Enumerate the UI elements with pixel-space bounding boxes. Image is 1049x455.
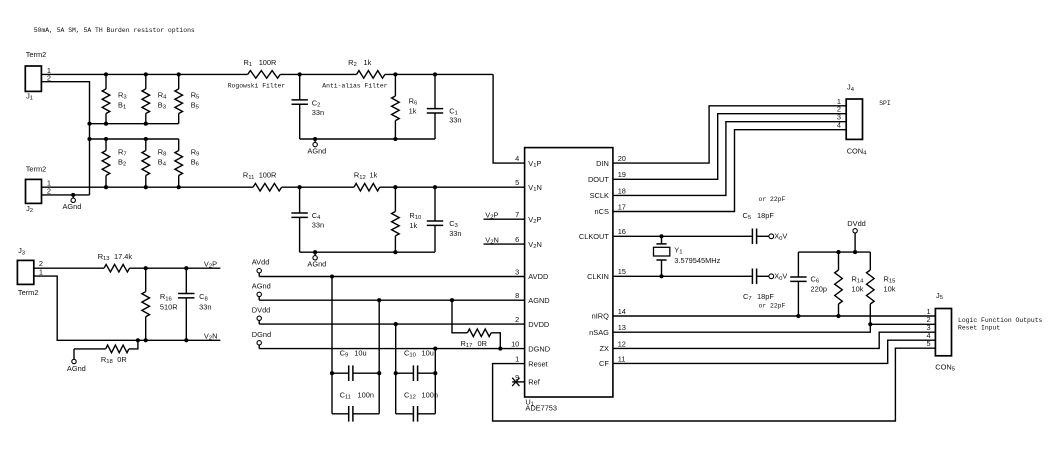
wire R12 to pin 5	[380, 186, 525, 188]
resistor R6	[392, 74, 418, 139]
node R5 top	[177, 72, 181, 76]
resistor R9	[175, 139, 200, 187]
svg-text:1k: 1k	[370, 171, 378, 180]
svg-text:AGnd: AGnd	[67, 364, 86, 373]
svg-text:7: 7	[515, 210, 519, 219]
node R4 top	[144, 72, 148, 76]
terminal X0V top	[765, 232, 788, 242]
svg-text:1k: 1k	[409, 221, 417, 230]
svg-text:AGnd: AGnd	[63, 202, 82, 211]
capacitor C10	[396, 349, 436, 382]
wire C9 right rail	[378, 300, 380, 414]
svg-text:C8​: C8​	[199, 292, 208, 302]
net V2P at pin 7	[484, 210, 525, 220]
resistor R12	[354, 171, 380, 191]
wire J3 pin1 down to V2N row	[34, 276, 221, 340]
svg-text:Anti-alias Filter: Anti-alias Filter	[322, 83, 387, 90]
wire R11 to R12	[282, 186, 354, 188]
wire DVdd rail	[259, 323, 524, 325]
node R15 bottom	[868, 322, 872, 326]
node C3 top	[433, 185, 437, 189]
svg-text:ZX: ZX	[599, 344, 609, 353]
svg-text:4: 4	[837, 121, 841, 130]
svg-text:10k: 10k	[852, 284, 864, 293]
capacitor C8	[178, 268, 211, 340]
node rail C join	[87, 137, 91, 141]
node R14 top	[836, 250, 840, 254]
net label V2P left	[204, 259, 217, 269]
label SPI	[879, 100, 891, 107]
node C6 bottom	[796, 314, 800, 318]
terminal DVdd	[847, 219, 866, 252]
node R8 bottom	[144, 185, 148, 189]
wire J1 pin1 to rail A	[41, 73, 247, 75]
ground AGnd filter2	[307, 252, 326, 268]
node R10 top	[393, 185, 397, 189]
svg-text:nCS: nCS	[595, 207, 609, 216]
svg-text:SPI: SPI	[879, 100, 891, 107]
resistor R4	[142, 74, 167, 123]
pin 12 ZX label	[599, 339, 625, 353]
node C10 left	[394, 371, 398, 375]
resistor R2	[348, 58, 385, 78]
capacitor C3	[427, 187, 462, 252]
pin 11 CF label	[599, 354, 625, 368]
svg-text:33n: 33n	[312, 221, 324, 230]
label or 22pF bottom	[759, 302, 786, 309]
node C9C11 right rail top	[377, 298, 381, 302]
svg-text:Reset: Reset	[528, 359, 547, 368]
node R7 top	[104, 137, 108, 141]
node R17 right bottom	[498, 347, 502, 351]
node R9 bottom	[177, 185, 181, 189]
node R16 bottom	[144, 338, 148, 342]
svg-text:or 22pF: or 22pF	[759, 196, 786, 203]
label Anti-alias Filter	[322, 83, 387, 90]
svg-text:DIN: DIN	[596, 159, 609, 168]
wire J3 pin2 to R13	[34, 267, 104, 269]
node C10 rail top	[394, 322, 398, 326]
wire ZX to J5 pin3	[613, 332, 936, 348]
svg-text:10: 10	[511, 340, 519, 349]
svg-text:nIRQ: nIRQ	[592, 312, 610, 321]
node R17 left top	[450, 298, 454, 302]
capacitor C4	[291, 187, 324, 252]
wire rail C	[90, 138, 179, 140]
wire nCS to J4 pin4	[613, 130, 846, 212]
capacitor C2	[292, 74, 325, 139]
node R3 bottom	[104, 122, 108, 126]
pin 4 V1P label	[515, 154, 541, 169]
capacitor C9	[332, 349, 379, 382]
wire AVdd rail	[259, 276, 524, 278]
pin 14 nIRQ label	[592, 307, 626, 321]
wire C10 left rail	[395, 324, 397, 414]
node C9 rail top	[330, 274, 334, 278]
svg-text:AVDD: AVDD	[528, 272, 548, 281]
svg-text:10u: 10u	[422, 349, 434, 358]
terminal DVdd	[252, 305, 270, 324]
resistor R10	[392, 187, 422, 252]
pin 13 nSAG label	[589, 323, 626, 337]
svg-text:4: 4	[515, 154, 519, 163]
wire DGnd rail	[259, 348, 524, 350]
svg-text:10k: 10k	[884, 284, 896, 293]
svg-text:33n: 33n	[199, 302, 211, 311]
wire DOUT to J4 pin2	[613, 114, 846, 180]
pin 18 SCLK label	[590, 186, 626, 200]
svg-text:3.579545MHz: 3.579545MHz	[674, 256, 720, 265]
wire J1 pin2 down	[41, 82, 89, 195]
svg-text:AGnd: AGnd	[252, 281, 271, 290]
node R8 top	[144, 137, 148, 141]
resistor R7	[102, 139, 126, 187]
capacitor C12	[396, 390, 438, 421]
svg-text:R6​: R6​	[409, 96, 418, 106]
resistor R18	[74, 340, 138, 365]
svg-text:DOUT: DOUT	[588, 175, 609, 184]
wire J2 pin1 (V1N)	[42, 186, 254, 188]
pin 16 CLKOUT label	[579, 227, 626, 241]
node C8 top	[184, 266, 188, 270]
ground AGnd at J2	[63, 195, 82, 211]
svg-text:19: 19	[618, 170, 626, 179]
resistor R16	[142, 268, 178, 340]
capacitor C11	[332, 390, 379, 421]
node R3 top	[104, 72, 108, 76]
capacitor C5	[743, 211, 775, 244]
svg-text:5: 5	[515, 178, 519, 187]
svg-text:5: 5	[926, 339, 930, 348]
svg-text:DVdd: DVdd	[252, 305, 270, 314]
svg-text:13: 13	[618, 323, 626, 332]
node C9 left	[330, 371, 334, 375]
node C1 top	[433, 72, 437, 76]
svg-text:1k: 1k	[364, 58, 372, 67]
pin 6 V2N label	[515, 235, 542, 250]
svg-text:100R: 100R	[259, 171, 277, 180]
label or 22pF top	[759, 196, 786, 203]
pin 10 DGND label	[511, 340, 550, 354]
wire nSAG to J5 pin2	[613, 324, 936, 332]
wire CLKIN	[613, 275, 743, 277]
pin 7 V2P label	[515, 210, 541, 225]
svg-text:17: 17	[618, 202, 626, 211]
svg-text:CLKIN: CLKIN	[587, 272, 609, 281]
title text	[34, 27, 195, 34]
resistor R8	[142, 139, 167, 187]
label Logic Function Outputs	[958, 317, 1043, 324]
wire R1 to R2	[280, 73, 356, 75]
node R6 top	[393, 72, 397, 76]
svg-text:CF: CF	[599, 359, 609, 368]
resistor R11	[243, 171, 282, 191]
node C10 right	[433, 371, 437, 375]
svg-text:33n: 33n	[449, 116, 461, 125]
pin 5 V1N label	[515, 178, 542, 193]
svg-text:18pF: 18pF	[757, 211, 774, 220]
svg-text:DVDD: DVDD	[528, 320, 549, 329]
ground AGnd at R18	[67, 349, 86, 373]
resistor R3	[102, 74, 127, 123]
svg-text:15: 15	[618, 267, 626, 276]
resistor R13	[98, 252, 133, 272]
wire filter2 ground rail	[300, 251, 435, 253]
wire C10 right rail	[434, 349, 436, 414]
svg-text:B5​: B5​	[191, 101, 200, 111]
svg-text:0R: 0R	[117, 355, 126, 364]
wire nIRQ to J5 pin1	[613, 315, 936, 317]
op-amp U1 ADE7753 body	[525, 148, 613, 413]
pin 9 Ref label	[515, 373, 541, 387]
svg-text:33n: 33n	[312, 108, 324, 117]
svg-text:C3​: C3​	[449, 219, 458, 229]
svg-text:17.4k: 17.4k	[114, 252, 132, 261]
wire DIN to J4 pin1	[613, 106, 846, 163]
svg-text:ADE7753: ADE7753	[525, 404, 557, 413]
wire SCLK to J4 pin3	[613, 122, 846, 196]
crystal Y1	[654, 236, 721, 276]
pin 15 CLKIN label	[587, 267, 626, 281]
wire CF to J5 pin4	[613, 340, 936, 363]
node crystal bottom	[659, 274, 663, 278]
svg-text:100n: 100n	[358, 390, 374, 399]
wire V1P into pin 4	[493, 74, 524, 163]
svg-text:DVdd: DVdd	[847, 219, 866, 228]
wire AGnd rail	[259, 299, 524, 301]
svg-text:220p: 220p	[811, 284, 827, 293]
svg-text:18pF: 18pF	[757, 292, 774, 301]
no-connect pin 9 Ref	[512, 378, 524, 386]
svg-text:18: 18	[618, 186, 626, 195]
net V2N at pin 6	[484, 235, 525, 245]
pin 19 DOUT label	[588, 170, 626, 184]
svg-text:C4​: C4​	[312, 211, 321, 221]
node rail B join	[87, 122, 91, 126]
wire rail B	[90, 123, 179, 125]
terminal AGnd	[252, 281, 271, 300]
capacitor C1	[427, 74, 462, 139]
svg-text:8: 8	[515, 291, 519, 300]
svg-text:1k: 1k	[409, 106, 417, 115]
svg-text:DGND: DGND	[528, 344, 550, 353]
svg-text:Logic Function Outputs: Logic Function Outputs	[958, 317, 1043, 324]
net label V2N left	[204, 332, 218, 342]
svg-text:B6​: B6​	[191, 157, 200, 167]
wire Reset to J5 pin5	[493, 348, 936, 421]
node R18 join V2N	[136, 338, 140, 342]
connector J3 (Term2)	[17, 246, 43, 297]
resistor R14	[835, 252, 864, 316]
svg-text:Reset Input: Reset Input	[958, 325, 1000, 332]
pin 3 AVDD label	[515, 267, 548, 281]
wire CLKOUT	[613, 235, 743, 237]
svg-text:50mA, 5A SM, 5A TH Burden resi: 50mA, 5A SM, 5A TH Burden resistor optio…	[34, 27, 195, 34]
node DVdd join	[853, 250, 857, 254]
wire R2 to turn	[385, 73, 493, 75]
svg-text:AGnd: AGnd	[307, 147, 326, 156]
label Rogowski Filter	[228, 83, 286, 90]
svg-text:AGND: AGND	[528, 296, 549, 305]
wire J2 pin2	[42, 194, 90, 196]
resistor R1	[244, 58, 281, 78]
node AGnd tap J2	[71, 193, 75, 197]
node R7 bottom	[104, 185, 108, 189]
wire C9 left rail	[331, 277, 333, 414]
svg-text:Term2: Term2	[26, 165, 47, 174]
svg-text:1: 1	[515, 355, 519, 364]
resistor R17	[452, 300, 500, 349]
node C8 bottom	[184, 338, 188, 342]
svg-text:14: 14	[618, 307, 626, 316]
svg-text:SCLK: SCLK	[590, 191, 609, 200]
svg-text:Rogowski Filter: Rogowski Filter	[228, 83, 286, 90]
connector J1 (Term2)	[25, 50, 51, 102]
connector J2 (Term2)	[26, 165, 52, 214]
pin 17 nCS label	[595, 202, 626, 216]
node R16 top	[144, 266, 148, 270]
svg-text:Ref: Ref	[528, 378, 540, 387]
svg-text:100R: 100R	[259, 58, 277, 67]
ground AGnd filter1	[307, 139, 326, 156]
svg-text:or 22pF: or 22pF	[759, 302, 786, 309]
wire filter1 ground rail	[300, 138, 435, 140]
svg-text:nSAG: nSAG	[589, 328, 609, 337]
node R10 bottom	[393, 250, 397, 254]
wire DVdd rail	[798, 251, 870, 253]
node C10C12 right rail top	[433, 347, 437, 351]
node R4 bottom	[144, 122, 148, 126]
svg-text:12: 12	[618, 339, 626, 348]
svg-text:33n: 33n	[449, 229, 461, 238]
svg-text:Term2: Term2	[26, 50, 47, 59]
terminal DGnd	[252, 330, 271, 349]
svg-text:AGnd: AGnd	[307, 260, 326, 269]
capacitor C6	[790, 252, 827, 316]
node crystal top	[659, 234, 663, 238]
svg-text:11: 11	[618, 354, 626, 363]
resistor R15	[867, 252, 897, 324]
label Reset Input	[958, 325, 1000, 332]
svg-text:R4​: R4​	[158, 90, 167, 100]
node R14 bottom	[836, 314, 840, 318]
svg-text:6: 6	[515, 235, 519, 244]
svg-text:3: 3	[515, 267, 519, 276]
svg-text:Term2: Term2	[18, 288, 39, 297]
svg-text:20: 20	[618, 154, 626, 163]
svg-text:R5​: R5​	[191, 90, 200, 100]
svg-text:CLKOUT: CLKOUT	[579, 232, 609, 241]
node AGnd tap filter1	[313, 137, 317, 141]
resistor R5	[175, 74, 200, 123]
node R6 bottom	[393, 137, 397, 141]
svg-text:B4​: B4​	[158, 157, 167, 167]
svg-text:DGnd: DGnd	[252, 330, 271, 339]
svg-text:10u: 10u	[354, 349, 366, 358]
node C2 top	[298, 72, 302, 76]
node C9 right	[377, 371, 381, 375]
svg-text:B3​: B3​	[158, 101, 167, 111]
svg-text:R8​: R8​	[158, 148, 167, 158]
node AGnd tap filter2	[313, 250, 317, 254]
svg-text:16: 16	[618, 227, 626, 236]
capacitor C7	[743, 269, 775, 303]
svg-text:100n: 100n	[422, 390, 438, 399]
pin 8 AGND label	[515, 291, 549, 305]
terminal AVdd	[252, 258, 270, 277]
pin 2 DVDD label	[515, 315, 549, 329]
svg-text:0R: 0R	[478, 339, 487, 348]
pin 20 DIN label	[596, 154, 626, 168]
svg-text:510R: 510R	[160, 302, 178, 311]
svg-text:2: 2	[515, 315, 519, 324]
terminal X0V bottom	[765, 272, 788, 282]
pin 1 Reset label	[515, 355, 547, 369]
svg-text:AVdd: AVdd	[252, 258, 270, 267]
wire R13 to V2P label	[130, 267, 221, 269]
connector J4 (CON4)	[837, 83, 867, 157]
node C4 top	[298, 185, 302, 189]
connector J5 (CON5)	[926, 291, 955, 373]
